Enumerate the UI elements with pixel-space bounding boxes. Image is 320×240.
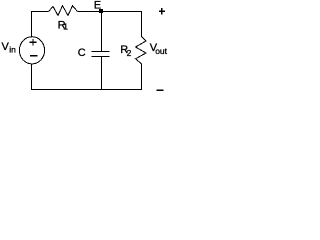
wire right rail top [141, 11, 143, 37]
wire right rail bottom [141, 64, 143, 91]
svg-text:in: in [9, 45, 16, 55]
resistor R2 [136, 37, 147, 64]
source Vin plus sign [30, 39, 37, 46]
capacitor C bottom lead [101, 57, 103, 90]
capacitor C top plate [92, 51, 110, 53]
wire left rail bottom [31, 64, 33, 91]
resistor R1 [49, 6, 78, 16]
source Vin minus sign [30, 55, 38, 57]
wire bottom [31, 89, 142, 91]
svg-text:1: 1 [63, 22, 68, 32]
wire left rail top [31, 11, 33, 38]
capacitor C top lead [101, 13, 103, 51]
plus sign output terminal [159, 8, 165, 14]
svg-text:out: out [155, 46, 167, 56]
wire top-left segment [31, 11, 49, 13]
svg-text:V: V [2, 41, 10, 53]
svg-text:2: 2 [127, 48, 132, 58]
wire node E to top-right corner [102, 11, 142, 13]
capacitor C bottom plate [92, 56, 110, 58]
svg-text:C: C [78, 47, 86, 59]
svg-text:E: E [94, 0, 101, 11]
minus sign output terminal [157, 89, 164, 91]
wire R1 to node E [78, 11, 102, 13]
source Vin circle [19, 37, 44, 64]
node E junction dot [99, 9, 103, 13]
